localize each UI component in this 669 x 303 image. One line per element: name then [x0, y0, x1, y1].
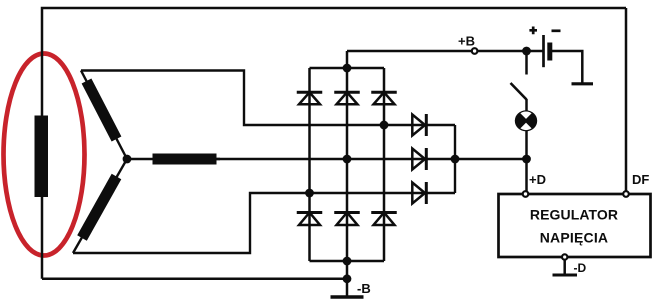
wire: phase 3 to bridge (bottom): [73, 193, 455, 253]
wire: +B rail from bridge to battery: [347, 50, 543, 53]
diode D9 (trio bottom): [412, 182, 426, 204]
diode D6 (bridge bottom-right): [371, 213, 397, 226]
svg-text:+B: +B: [458, 34, 475, 49]
svg-text:-D: -D: [574, 261, 587, 275]
switch S1 (ignition, open blade): [511, 83, 527, 100]
rotor field winding (vertical bar on brush wire): [35, 116, 49, 198]
diode D2 (bridge top-center): [334, 92, 360, 104]
wire: DF field loop (top, left, right): [42, 8, 626, 279]
battery BT1 positive plate: [542, 35, 545, 67]
terminal -D: [562, 254, 567, 259]
wire: bottom return from field to -B: [42, 278, 347, 281]
wire: phase 2 to bridge (middle): [216, 158, 455, 160]
ground (battery chassis): [572, 82, 594, 85]
diode D1 (bridge top-left): [297, 92, 323, 104]
terminal DF: [623, 191, 629, 197]
junction dot: bridge top rail / +B tap: [343, 64, 352, 73]
wire: bridge top rail: [310, 67, 385, 70]
junction dot: bridge bottom rail: [343, 257, 352, 266]
svg-text:+D: +D: [529, 172, 546, 187]
junction dot: phase1 / right column: [380, 121, 389, 130]
diode D5 (bridge bottom-center): [334, 213, 360, 226]
terminal +D: [523, 191, 529, 197]
red ellipse highlight around rotor: [4, 54, 85, 256]
stator winding W2 (lower-left phase): [73, 159, 127, 253]
wire: +D node to regulator: [525, 159, 528, 194]
label + (battery): [529, 27, 537, 35]
junction dot: -B node: [343, 274, 352, 283]
ground -D symbol: [553, 274, 578, 277]
diode D8 (trio middle): [412, 148, 426, 170]
wire: switch to lamp: [525, 99, 528, 111]
stator winding W3 (horizontal phase): [127, 158, 220, 160]
diode D7 (trio top): [412, 114, 426, 136]
diode D4 (bridge bottom-left): [297, 213, 323, 226]
wire: switch feed from +B rail: [525, 51, 528, 75]
wire: bridge center column (+B tap to -B ground): [346, 51, 349, 297]
junction dot: trio output: [451, 155, 460, 164]
junction dot: battery / switch tap: [522, 47, 531, 56]
wire: bridge left column: [308, 68, 311, 261]
wire: -D stem: [563, 260, 566, 274]
regulator box U1: [499, 194, 651, 257]
terminal +B: [472, 48, 478, 54]
battery BT1 negative plate: [547, 43, 552, 61]
svg-text:REGULATOR: REGULATOR: [530, 207, 618, 223]
ground -B symbol: [331, 295, 364, 298]
wire: lamp to +D node: [525, 131, 528, 159]
svg-text:NAPIĘCIA: NAPIĘCIA: [540, 230, 609, 246]
diode D3 (bridge top-right): [371, 92, 397, 104]
junction dot: phase2 / center column: [343, 155, 352, 164]
svg-text:DF: DF: [632, 172, 649, 187]
wire: bridge bottom rail: [310, 260, 385, 263]
junction dot: +D node: [522, 155, 531, 164]
wire: trio cathode join: [454, 125, 456, 193]
junction dot: phase3 / left column: [305, 189, 314, 198]
stator winding W1 (upper-left phase): [81, 71, 127, 160]
wire: bridge right column: [383, 68, 386, 261]
lamp HL1 (charge indicator): [515, 110, 537, 131]
wire: trio output to +D: [455, 158, 527, 160]
node: star point: [123, 155, 132, 164]
svg-text:-B: -B: [357, 281, 371, 296]
wire: battery negative to chassis: [550, 51, 582, 83]
label - (battery): [552, 29, 561, 32]
wire: phase 1 to bridge (top): [81, 71, 455, 126]
